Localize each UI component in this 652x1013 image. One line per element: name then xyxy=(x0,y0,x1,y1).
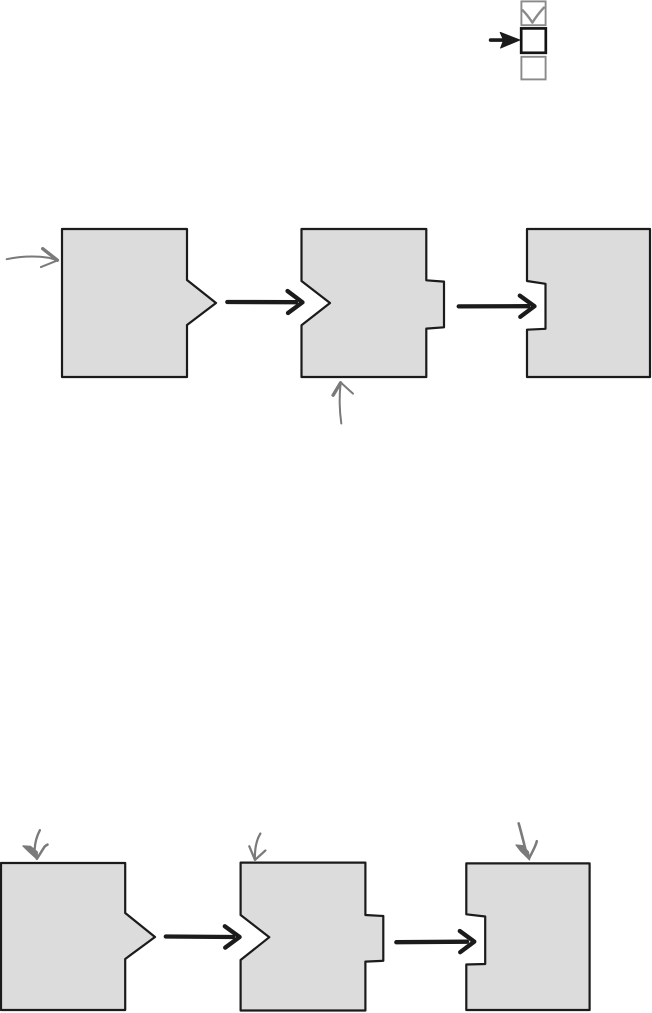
row1 block 1 (tab on right) xyxy=(62,229,216,377)
row2 annotation arrow above block C xyxy=(516,823,537,860)
checkmark in top square xyxy=(523,8,544,23)
row1 arrow block2 to block3 xyxy=(459,296,535,317)
row2 annotation arrow above block A xyxy=(23,830,48,859)
row2 annotation arrow above block B xyxy=(249,834,265,860)
row2 block B (notch left, bump right) xyxy=(241,863,384,1011)
row2 arrow blockB to blockC xyxy=(396,931,474,952)
row2 block A (tab on right) xyxy=(1,863,155,1010)
row1 arrow block1 to block2 xyxy=(227,291,302,313)
checklist square top (checked) xyxy=(521,1,545,25)
arrow pointing at middle square xyxy=(491,32,520,48)
checklist square middle (current, bold) xyxy=(521,28,546,52)
checklist square bottom xyxy=(521,57,545,80)
row1 block 3 (socket notch left) xyxy=(527,229,650,377)
row1 annotation arrow at left of block 1 xyxy=(7,249,58,267)
row1 annotation arrow under block 2 xyxy=(333,383,353,424)
row2 arrow blockA to blockB xyxy=(166,926,240,947)
row2 block C (socket notch left) xyxy=(466,863,589,1010)
row1 block 2 (notch left, bump right) xyxy=(302,229,445,377)
